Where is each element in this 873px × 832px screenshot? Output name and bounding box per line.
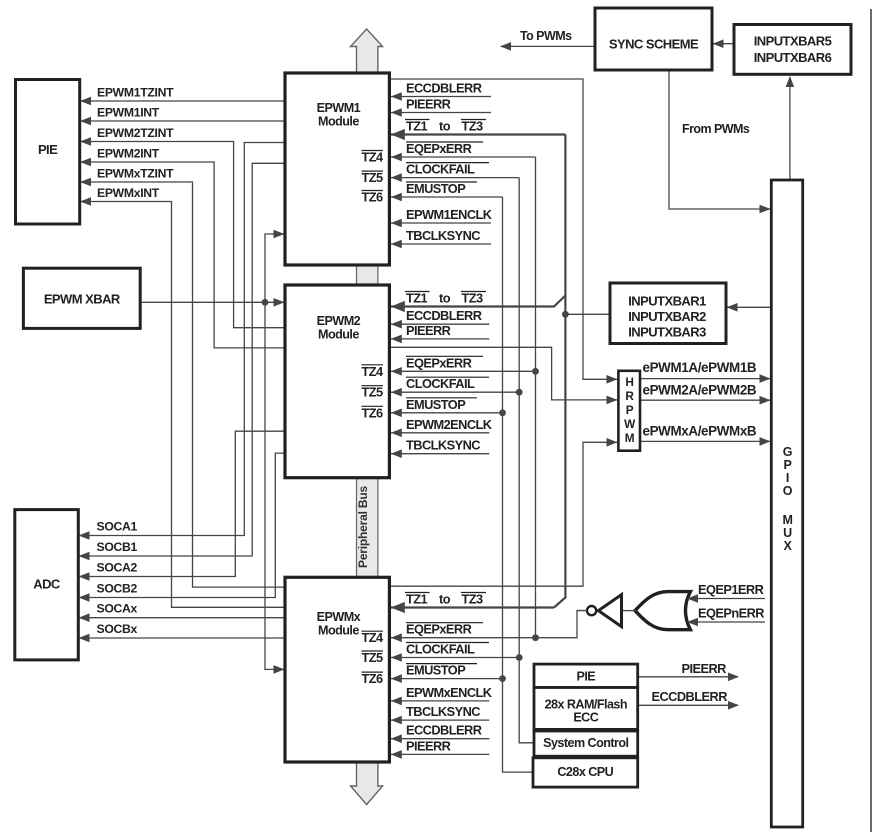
label ECCDBLERR (EPWM1) [406,81,482,96]
label ePWMxA/ePWMxB [643,424,757,439]
wire EPWM2INT [80,158,285,348]
label SOCB1 [97,540,138,554]
label EQEPxERR (EPWM2) [406,355,483,370]
pin label TZ6 (EPWM2) [361,405,383,420]
svg-text:PIE: PIE [38,142,58,157]
label EQEP1ERR [698,582,764,597]
box EPWMx Module [285,577,389,762]
wire ECCDBLERR (EPWM2) [391,320,490,329]
svg-text:TZ4: TZ4 [361,364,384,379]
svg-text:PIEERR: PIEERR [406,323,451,338]
label ECCDBLERR (EPWM2) [406,308,482,323]
wire SOCAx [79,613,286,622]
svg-text:SOCAx: SOCAx [97,602,138,616]
wire EMUSTOP vertical net [503,197,535,772]
wire INPUTXBAR56 to SYNC SCHEME [713,39,735,48]
svg-text:TZ4: TZ4 [361,150,384,165]
svg-text:EMUSTOP: EMUSTOP [406,397,466,412]
label EMUSTOP (EPWM2) [406,397,477,412]
svg-text:EPWM2ENCLK: EPWM2ENCLK [406,417,493,432]
label To PWMs [520,29,572,43]
wire ECCDBLERR (EPWM1) [391,92,491,101]
peripheral bus segment EPWM2-EPWMx [357,477,378,579]
svg-text:TZ5: TZ5 [361,170,383,185]
wire EPWM1 sync to HRPWM [389,79,617,384]
svg-text:ECCDBLERR: ECCDBLERR [406,308,482,323]
box PIE (interrupt block) [534,664,638,687]
svg-text:CLOCKFAIL: CLOCKFAIL [406,162,475,177]
label TZ1 to TZ3 (EPWM1) [405,119,486,134]
svg-text:P: P [784,458,792,472]
wire GPIO MUX to INPUTXBAR123 [727,303,771,312]
svg-text:CLOCKFAIL: CLOCKFAIL [406,642,475,657]
svg-text:TZ1: TZ1 [406,291,428,306]
pin label TZ4 (EPWMx) [361,630,384,645]
svg-text:TZ3: TZ3 [462,592,484,607]
svg-text:TZ3: TZ3 [462,119,484,134]
box ADC [15,510,79,660]
svg-text:M: M [782,513,792,527]
label ECCDBLERR (EPWMx) [406,723,482,738]
label SOCAx [97,602,138,616]
svg-text:EQEPnERR: EQEPnERR [698,606,764,621]
wire EPWM2ENCLK [391,429,490,438]
svg-text:SOCBx: SOCBx [97,622,138,636]
wire ePWMxA/ePWMxB [640,437,771,446]
label EMUSTOP (EPWMx) [406,663,477,678]
wire EPWMx sync to HRPWM [389,438,617,586]
wire EMUSTOP (EPWMx) [391,674,506,683]
label CLOCKFAIL (EPWM2) [406,376,489,391]
box INPUTXBAR5/6 [734,25,851,75]
svg-text:O: O [783,484,793,498]
box System Control [534,731,638,756]
wire SOCB1 [79,163,286,560]
wire EPWMxINT [80,197,285,607]
svg-text:SOCB1: SOCB1 [97,540,138,554]
svg-text:EQEPxERR: EQEPxERR [406,355,472,370]
svg-text:EPWMxINT: EPWMxINT [97,186,160,200]
label ePWM1A/ePWM1B [643,360,757,375]
svg-text:TZ5: TZ5 [361,385,383,400]
label EMUSTOP (EPWM1) [406,181,477,196]
svg-text:ECCDBLERR: ECCDBLERR [406,81,482,96]
wire PIEERR output [638,673,739,682]
label EPWM2ENCLK [406,417,493,432]
svg-text:PIE: PIE [576,670,595,684]
svg-text:SOCA1: SOCA1 [97,520,138,534]
svg-text:SOCA2: SOCA2 [97,561,138,575]
label EPWMxINT [97,186,160,200]
svg-text:TBCLKSYNC: TBCLKSYNC [406,438,480,453]
svg-text:System Control: System Control [543,736,628,750]
box EPWM XBAR [23,268,140,328]
svg-text:TBCLKSYNC: TBCLKSYNC [406,704,480,719]
box C28x CPU [533,758,638,787]
box PIE [16,80,80,225]
pin label TZ4 (EPWM2) [361,364,384,379]
svg-text:INPUTXBAR2: INPUTXBAR2 [628,309,706,324]
svg-text:EPWMxTZINT: EPWMxTZINT [97,167,174,181]
svg-text:PIEERR: PIEERR [682,661,727,676]
junction dot TZ bus [562,311,569,318]
svg-text:ECCDBLERR: ECCDBLERR [406,723,482,738]
svg-text:ECCDBLERR: ECCDBLERR [652,689,728,704]
svg-text:ADC: ADC [33,577,61,592]
label SOCB2 [97,582,138,596]
label TZ1 to TZ3 (EPWM2) [405,291,486,306]
wire EMUSTOP (EPWM1) [391,193,503,202]
wire OR output to inverter [622,610,637,612]
svg-text:Module: Module [318,624,359,638]
box GPIO MUX [771,180,802,827]
svg-text:EPWM1TZINT: EPWM1TZINT [97,86,174,100]
svg-text:I: I [786,471,789,485]
wire EPWM1ENCLK [391,219,491,228]
label ePWM2A/ePWM2B [643,383,757,398]
svg-text:ePWM2A/ePWM2B: ePWM2A/ePWM2B [643,383,757,398]
svg-text:TBCLKSYNC: TBCLKSYNC [406,228,480,243]
label PIEERR output [682,661,727,676]
svg-text:U: U [783,526,792,540]
wire ECCDBLERR output [638,701,739,710]
label EQEPxERR (EPWM1) [406,141,483,156]
label EQEPnERR [698,606,764,621]
pin label TZ6 (EPWM1) [361,190,383,205]
label EPWM2TZINT [97,126,174,140]
peripheral bus label [356,486,370,568]
svg-text:to: to [439,592,451,607]
wire ePWM2A/ePWM2B [640,396,771,405]
svg-text:TZ1: TZ1 [406,119,428,134]
page border right edge [870,9,872,832]
label PIEERR (EPWM2) [406,323,451,338]
svg-text:SOCB2: SOCB2 [97,582,138,596]
wire TBCLKSYNC (EPWMx) [391,716,490,725]
label SOCA2 [97,561,138,575]
svg-text:PIEERR: PIEERR [406,97,451,112]
wire SOCA1 [79,143,286,540]
box HRPWM [618,371,640,451]
svg-text:TZ6: TZ6 [361,405,383,420]
svg-text:Module: Module [318,328,359,342]
wire TZ1-TZ3 (EPWM1) trip zone bus [391,129,566,140]
svg-text:H: H [625,375,633,389]
wire SYNC SCHEME to GPIO MUX [669,70,771,213]
svg-text:PIEERR: PIEERR [406,738,451,753]
wire TZ bus to INPUTXBAR123 [565,313,611,315]
wire EPWM1INT [80,117,285,126]
label EPWMxTZINT [97,167,174,181]
box EPWM1 Module [285,73,389,265]
label TZ1 to TZ3 (EPWMx) [405,592,486,607]
pin label TZ5 (EPWM1) [361,170,383,185]
svg-text:INPUTXBAR5: INPUTXBAR5 [754,34,832,49]
svg-text:TZ6: TZ6 [361,190,383,205]
wire To PWMs [500,42,595,51]
peripheral bus segment EPWM1-EPWM2 [357,264,378,286]
svg-text:EPWM1: EPWM1 [317,101,361,115]
wire PIEERR (EPWMx) [391,750,490,759]
svg-text:TZ1: TZ1 [406,592,428,607]
wire EQEPxERR (EPWMx) [391,611,586,643]
svg-text:TZ4: TZ4 [361,630,384,645]
svg-text:EPWMxENCLK: EPWMxENCLK [406,685,493,700]
svg-text:Module: Module [318,115,359,129]
svg-text:EPWM1ENCLK: EPWM1ENCLK [406,207,493,222]
svg-text:INPUTXBAR1: INPUTXBAR1 [628,294,706,309]
pin label TZ4 (EPWM1) [361,150,384,165]
svg-text:to: to [439,119,451,134]
wire CLOCKFAIL (EPWM2) [391,388,523,397]
wire EPWMxTZINT [80,178,285,587]
svg-text:EPWM2TZINT: EPWM2TZINT [97,126,174,140]
label ECCDBLERR output [652,689,728,704]
wire SOCB2 [79,453,286,602]
label CLOCKFAIL (EPWMx) [406,642,489,657]
wire EQEPnERR [687,618,765,627]
svg-text:EPWMx: EPWMx [317,610,361,624]
svg-text:From PWMs: From PWMs [682,122,750,136]
svg-text:X: X [784,539,793,553]
wire ePWM1A/ePWM1B [640,374,771,383]
label SOCBx [97,622,138,636]
peripheral bus arrow up (top) [351,29,383,74]
pin label TZ5 (EPWMx) [361,650,383,665]
wire EQEPxERR (EPWM2) [391,367,539,376]
svg-text:ECC: ECC [573,711,598,725]
svg-text:EQEPxERR: EQEPxERR [406,141,472,156]
OR gate [635,592,690,630]
wire SOCA2 [79,431,286,581]
svg-text:EPWM2: EPWM2 [317,314,361,328]
svg-text:to: to [439,291,451,306]
wire EPWM XBAR branch up to EPWM1 [265,230,285,303]
svg-text:G: G [783,445,792,459]
wire TZ to EPWMx [391,602,554,613]
wire EPWM XBAR trunk [140,298,284,307]
wire ECCDBLERR (EPWMx) [391,734,490,743]
wire EMUSTOP (EPWM2) [391,409,506,418]
svg-text:ePWM1A/ePWM1B: ePWM1A/ePWM1B [643,360,757,375]
svg-text:SYNC SCHEME: SYNC SCHEME [609,37,699,52]
label EPWM1TZINT [97,86,174,100]
label EPWM1INT [97,106,160,120]
label EPWMxENCLK [406,685,493,700]
svg-text:TZ6: TZ6 [361,671,383,686]
box SYNC SCHEME [595,8,712,70]
svg-text:W: W [624,417,636,431]
svg-text:CLOCKFAIL: CLOCKFAIL [406,376,475,391]
label EPWM1ENCLK [406,207,493,222]
wire TBCLKSYNC (EPWM2) [391,449,490,458]
wire EPWM1TZINT [80,97,285,106]
wire CLOCKFAIL (EPWMx) [391,653,523,662]
svg-text:M: M [625,431,635,445]
wire EQEPxERR vertical net [535,157,537,638]
svg-text:EQEPxERR: EQEPxERR [406,622,472,637]
wire TZ bus vertical [554,135,565,608]
svg-text:28x RAM/Flash: 28x RAM/Flash [545,698,627,712]
svg-text:EMUSTOP: EMUSTOP [406,181,466,196]
pin label TZ6 (EPWMx) [361,671,383,686]
label SOCA1 [97,520,138,534]
svg-text:ePWMxA/ePWMxB: ePWMxA/ePWMxB [643,424,757,439]
svg-text:C28x CPU: C28x CPU [557,765,613,779]
label TBCLKSYNC (EPWMx) [406,704,480,719]
svg-text:EQEP1ERR: EQEP1ERR [698,582,764,597]
label CLOCKFAIL (EPWM1) [406,162,489,177]
svg-text:INPUTXBAR3: INPUTXBAR3 [628,325,706,340]
wire TBCLKSYNC (EPWM1) [391,240,491,249]
label EPWM2INT [97,147,160,161]
wire PIEERR (EPWM1) [391,108,491,117]
svg-text:TZ3: TZ3 [462,291,484,306]
label EQEPxERR (EPWMx) [406,622,483,637]
svg-text:TZ5: TZ5 [361,650,383,665]
label PIEERR (EPWM1) [406,97,451,112]
wire TZ jog EPWM2 [391,296,566,313]
peripheral bus arrow down (bottom) [351,761,383,805]
label From PWMs [682,122,750,136]
wire EQEPxERR (EPWM1) [391,153,536,162]
wire EPWMxENCLK [391,697,490,706]
wire GPIO MUX to INPUTXBAR56 [786,76,795,180]
wire SOCBx [79,634,286,643]
label TBCLKSYNC (EPWM2) [406,438,480,453]
svg-text:P: P [626,403,634,417]
box INPUTXBAR1/2/3 [610,283,726,344]
svg-text:To PWMs: To PWMs [520,29,572,43]
inverter (NOT gate) [587,595,622,627]
box EPWM2 Module [285,285,389,478]
label TBCLKSYNC (EPWM1) [406,228,480,243]
wire EPWM2TZINT [80,137,285,328]
wire EPWM XBAR branch down to EPWMx [265,302,285,673]
wire CLOCKFAIL (EPWM1) [391,173,519,182]
wire EPWM2 sync to HRPWM [389,347,617,404]
svg-text:EPWM2INT: EPWM2INT [97,147,160,161]
svg-text:EPWM XBAR: EPWM XBAR [44,292,121,307]
junction dot XBAR [262,299,269,306]
svg-text:EPWM1INT: EPWM1INT [97,106,160,120]
wire PIEERR (EPWM2) [391,335,490,344]
wire EQEP1ERR [687,594,765,603]
box 28x RAM/Flash ECC [534,688,638,730]
svg-text:INPUTXBAR6: INPUTXBAR6 [754,50,832,65]
wire inverter output to EQEPxERR net [577,610,587,612]
svg-text:R: R [625,389,634,403]
label PIEERR (EPWMx) [406,738,451,753]
svg-text:EMUSTOP: EMUSTOP [406,663,466,678]
wire CLOCKFAIL vertical net [519,178,535,743]
pin label TZ5 (EPWM2) [361,385,383,400]
svg-text:Peripheral Bus: Peripheral Bus [356,486,370,568]
